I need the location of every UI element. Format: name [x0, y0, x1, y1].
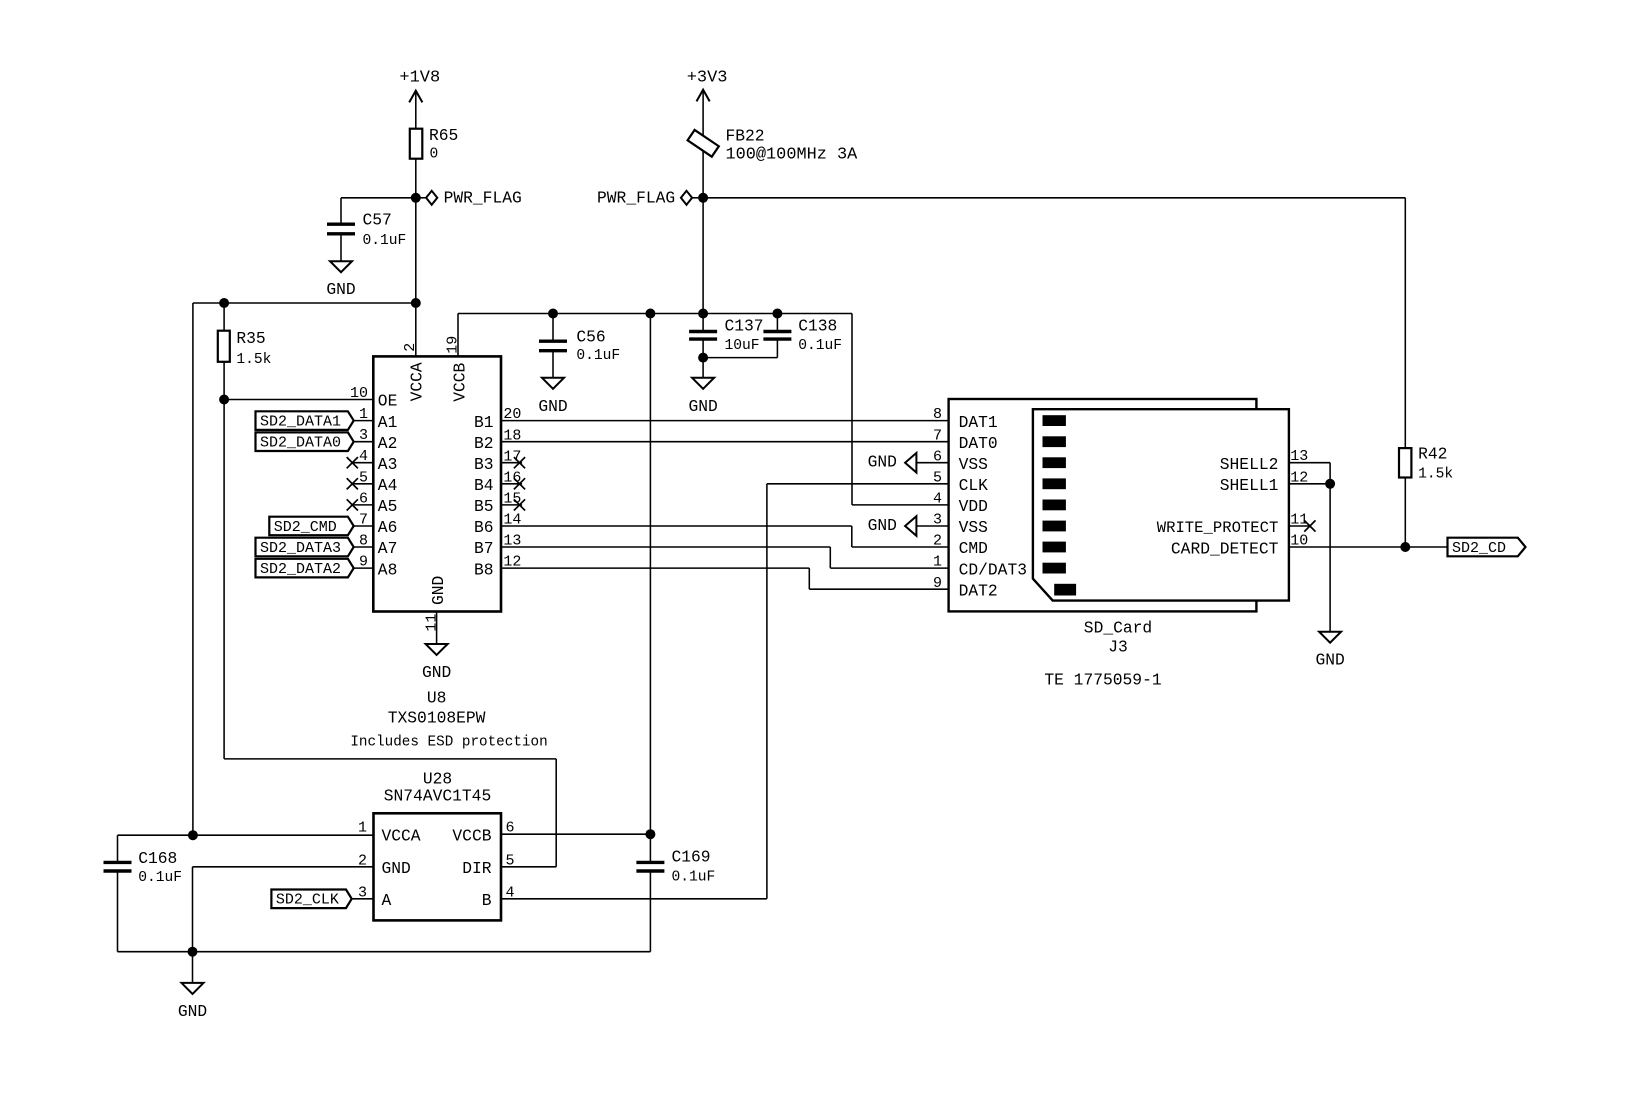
svg-text:WRITE_PROTECT: WRITE_PROTECT: [1157, 519, 1279, 537]
junction +1V8/PWR_FLAG: [411, 193, 421, 203]
wire U8 GND pin11: [436, 612, 438, 645]
svg-text:C57: C57: [363, 210, 392, 229]
ground below U8: [422, 644, 451, 682]
svg-text:GND: GND: [538, 397, 567, 416]
resistor R35: [218, 303, 272, 759]
ground below C137: [688, 378, 717, 416]
junction OE: [219, 395, 229, 405]
svg-text:Includes ESD protection: Includes ESD protection: [350, 735, 547, 751]
svg-text:C138: C138: [798, 316, 837, 335]
svg-text:PWR_FLAG: PWR_FLAG: [444, 188, 522, 207]
svg-text:19: 19: [444, 336, 461, 354]
svg-text:1.5k: 1.5k: [236, 352, 271, 368]
svg-text:SD2_CMD: SD2_CMD: [274, 519, 337, 536]
svg-text:DAT1: DAT1: [959, 413, 998, 432]
svg-text:A6: A6: [378, 518, 398, 537]
svg-text:TXS0108EPW: TXS0108EPW: [388, 709, 486, 728]
op-amp U8 body (TXS0108EPW level shifter): [373, 356, 501, 611]
wire junction to gnd: [192, 952, 194, 983]
svg-text:B8: B8: [474, 560, 494, 579]
svg-text:GND: GND: [422, 663, 451, 682]
wire left +1V8 drop: [192, 303, 194, 835]
svg-text:1: 1: [933, 554, 942, 571]
svg-text:U8: U8: [427, 688, 447, 707]
svg-text:A: A: [382, 891, 392, 910]
resistor R65: [410, 126, 459, 163]
svg-text:VCCB: VCCB: [452, 826, 491, 845]
wire shell to gnd: [1329, 484, 1331, 632]
wire U28 GND: [193, 867, 374, 952]
power symbol +3V3: [687, 68, 728, 197]
svg-text:0.1uF: 0.1uF: [798, 338, 842, 354]
svg-text:DAT0: DAT0: [959, 434, 998, 453]
svg-text:C168: C168: [138, 849, 177, 868]
svg-text:C56: C56: [576, 328, 605, 347]
svg-text:SD2_DATA1: SD2_DATA1: [260, 413, 341, 430]
capacitor C138: [763, 314, 842, 358]
svg-text:GND: GND: [868, 516, 897, 535]
svg-text:GND: GND: [868, 453, 897, 472]
wire VSS pin3: [916, 525, 948, 527]
svg-text:0.1uF: 0.1uF: [672, 869, 716, 885]
wire drop to U28 VCCB: [649, 314, 651, 835]
svg-text:SHELL2: SHELL2: [1220, 455, 1279, 474]
svg-text:DAT2: DAT2: [959, 581, 998, 600]
wire U28 B to CLK: [501, 484, 949, 899]
label SD2_DATA2: [256, 559, 374, 578]
svg-text:SHELL1: SHELL1: [1220, 476, 1279, 495]
wire C138 to C137 gnd: [703, 357, 777, 359]
svg-text:7: 7: [933, 427, 942, 444]
svg-text:0: 0: [430, 147, 439, 163]
no-connect B3: [501, 457, 525, 468]
svg-text:2: 2: [402, 343, 419, 352]
svg-text:CMD: CMD: [959, 539, 988, 558]
svg-text:CARD_DETECT: CARD_DETECT: [1171, 539, 1279, 558]
junction CARD_DETECT: [1400, 542, 1410, 552]
wire U28 VCCB: [501, 833, 650, 835]
junction U28 VCCB: [645, 829, 655, 839]
SD card graphic: [1033, 409, 1289, 600]
no-connect A3: [347, 457, 374, 468]
svg-text:1: 1: [358, 820, 367, 837]
ground below C57: [326, 261, 355, 299]
junction R35 top: [219, 298, 229, 308]
junction bottom gnd: [188, 947, 198, 957]
no-connect A4: [347, 478, 374, 489]
svg-text:+1V8: +1V8: [399, 69, 440, 88]
power flag PWR_FLAG (1V8): [416, 188, 522, 207]
ground bottom left: [178, 983, 207, 1021]
wire +1V8 rail: [193, 302, 416, 304]
svg-text:GND: GND: [429, 576, 448, 605]
svg-text:SD2_CD: SD2_CD: [1452, 540, 1506, 557]
svg-text:5: 5: [506, 852, 515, 869]
svg-text:1.5k: 1.5k: [1418, 467, 1453, 483]
svg-text:0.1uF: 0.1uF: [138, 870, 182, 886]
resistor R42: [1399, 198, 1453, 547]
svg-text:VSS: VSS: [959, 455, 988, 474]
svg-text:B2: B2: [474, 434, 494, 453]
U28 pin numbers: [358, 820, 515, 902]
svg-text:B5: B5: [474, 497, 494, 516]
svg-text:8: 8: [933, 406, 942, 423]
wire CARD_DETECT: [1289, 546, 1448, 548]
svg-text:DIR: DIR: [462, 859, 492, 878]
svg-text:A2: A2: [378, 434, 398, 453]
svg-text:PWR_FLAG: PWR_FLAG: [597, 188, 675, 207]
op-amp U28 body (SN74AVC1T45): [374, 813, 502, 920]
wire B8 to DAT2: [501, 568, 949, 589]
svg-text:B6: B6: [474, 518, 494, 537]
svg-text:GND: GND: [688, 397, 717, 416]
wire OE: [224, 399, 373, 401]
svg-text:SD2_DATA3: SD2_DATA3: [260, 540, 341, 557]
U28 reference text: [384, 770, 491, 806]
capacitor C168: [104, 835, 182, 952]
svg-text:0.1uF: 0.1uF: [363, 233, 407, 249]
ferrite bead FB22: [688, 127, 859, 165]
svg-text:SN74AVC1T45: SN74AVC1T45: [384, 786, 491, 805]
svg-text:B7: B7: [474, 539, 494, 558]
wire VCCA pin2: [415, 303, 417, 356]
wire B6 to CMD: [501, 526, 949, 547]
wire bottom gnd rail: [118, 951, 651, 953]
wire SHELL1: [1289, 483, 1330, 485]
svg-text:OE: OE: [378, 392, 398, 411]
wire VCCB rail: [458, 313, 852, 315]
svg-text:C137: C137: [725, 316, 764, 335]
svg-text:SD_Card: SD_Card: [1084, 619, 1152, 638]
svg-text:FB22: FB22: [726, 127, 765, 146]
capacitor C56: [539, 314, 620, 378]
wire VDD drop: [852, 314, 949, 505]
svg-text:A3: A3: [378, 455, 398, 474]
ground below C56: [538, 378, 567, 416]
no-connect B4: [501, 478, 525, 489]
svg-text:SD2_DATA2: SD2_DATA2: [260, 561, 341, 578]
svg-text:A1: A1: [378, 413, 398, 432]
wire to U28 DIR: [224, 759, 556, 867]
wire B2 to DAT0: [501, 441, 949, 443]
svg-text:VCCA: VCCA: [408, 362, 427, 401]
junction C138: [772, 309, 782, 319]
svg-text:0.1uF: 0.1uF: [576, 348, 620, 364]
no-connect WRITE_PROTECT: [1289, 520, 1316, 531]
svg-text:GND: GND: [1315, 651, 1344, 670]
wire U28 VCCA: [118, 834, 374, 836]
svg-text:TE 1775059-1: TE 1775059-1: [1044, 670, 1161, 689]
svg-text:+3V3: +3V3: [687, 68, 728, 87]
svg-text:100@100MHz 3A: 100@100MHz 3A: [726, 146, 859, 165]
U8 pin numbers: [350, 336, 521, 632]
ground at pin6: [868, 453, 917, 473]
svg-text:A8: A8: [378, 560, 398, 579]
power flag PWR_FLAG (3V3): [597, 188, 703, 207]
wire +3V3 top rail: [703, 197, 1405, 199]
svg-text:A5: A5: [378, 497, 398, 516]
no-connect B5: [501, 499, 525, 510]
ground at shell: [1315, 632, 1344, 670]
wire R65 to junction: [415, 159, 417, 303]
svg-text:VDD: VDD: [959, 497, 988, 516]
wire B1 to DAT1: [501, 420, 949, 422]
comment Includes ESD protection: [350, 735, 547, 751]
wire SHELL2: [1289, 463, 1330, 484]
svg-text:GND: GND: [326, 280, 355, 299]
junction SHELL: [1325, 479, 1335, 489]
power symbol +1V8: [399, 69, 440, 129]
svg-text:SD2_CLK: SD2_CLK: [276, 892, 339, 909]
svg-text:CD/DAT3: CD/DAT3: [959, 560, 1027, 579]
svg-text:SD2_DATA0: SD2_DATA0: [260, 435, 341, 452]
svg-text:VCCB: VCCB: [450, 362, 469, 401]
svg-text:VCCA: VCCA: [382, 826, 421, 845]
svg-text:R65: R65: [429, 126, 458, 145]
wire to gnd below C137: [702, 358, 704, 378]
svg-text:10: 10: [350, 385, 368, 402]
capacitor C137: [689, 314, 763, 358]
label SD2_DATA0: [256, 432, 374, 451]
label SD2_CLK: [271, 890, 373, 909]
svg-text:VSS: VSS: [959, 518, 988, 537]
svg-text:2: 2: [933, 533, 942, 550]
junction U28 VCCA: [188, 830, 198, 840]
J3 reference text: [1044, 619, 1161, 690]
svg-text:CLK: CLK: [959, 476, 989, 495]
wire to C57: [341, 197, 416, 199]
svg-text:J3: J3: [1108, 638, 1128, 657]
svg-text:B3: B3: [474, 455, 494, 474]
svg-text:A4: A4: [378, 476, 398, 495]
junction C137: [698, 309, 708, 319]
svg-text:R42: R42: [1418, 445, 1447, 464]
junction C56: [548, 309, 558, 319]
svg-text:B1: B1: [474, 413, 494, 432]
svg-text:C169: C169: [672, 848, 711, 867]
svg-text:GND: GND: [178, 1002, 207, 1021]
label SD2_CMD: [269, 517, 373, 536]
wire +3V3 down: [702, 198, 704, 314]
capacitor C169: [636, 834, 715, 952]
junction C169 drop: [645, 309, 655, 319]
svg-text:10uF: 10uF: [725, 338, 760, 354]
wire VSS pin6: [916, 462, 948, 464]
connector J3 body: [949, 399, 1257, 611]
U8 reference text: [388, 688, 486, 727]
svg-text:R35: R35: [236, 329, 265, 348]
svg-text:B4: B4: [474, 476, 494, 495]
capacitor C57: [327, 198, 406, 261]
J3 pin texts: [933, 406, 1308, 600]
junction +1V8 rail: [411, 298, 421, 308]
svg-text:9: 9: [933, 575, 942, 592]
label SD2_DATA1: [256, 411, 374, 430]
junction +3V3: [698, 193, 708, 203]
ground at pin3: [868, 516, 917, 536]
wire B7 to CD/DAT3: [501, 547, 949, 568]
no-connect A5: [347, 499, 374, 510]
svg-text:11: 11: [423, 614, 440, 632]
svg-text:B: B: [482, 891, 492, 910]
svg-text:4: 4: [933, 491, 942, 508]
label SD2_CD: [1448, 538, 1526, 557]
junction below C137: [698, 353, 708, 363]
wire VCCB pin19: [457, 314, 459, 357]
svg-text:A7: A7: [378, 539, 398, 558]
svg-text:GND: GND: [382, 859, 411, 878]
label SD2_DATA3: [256, 538, 374, 557]
